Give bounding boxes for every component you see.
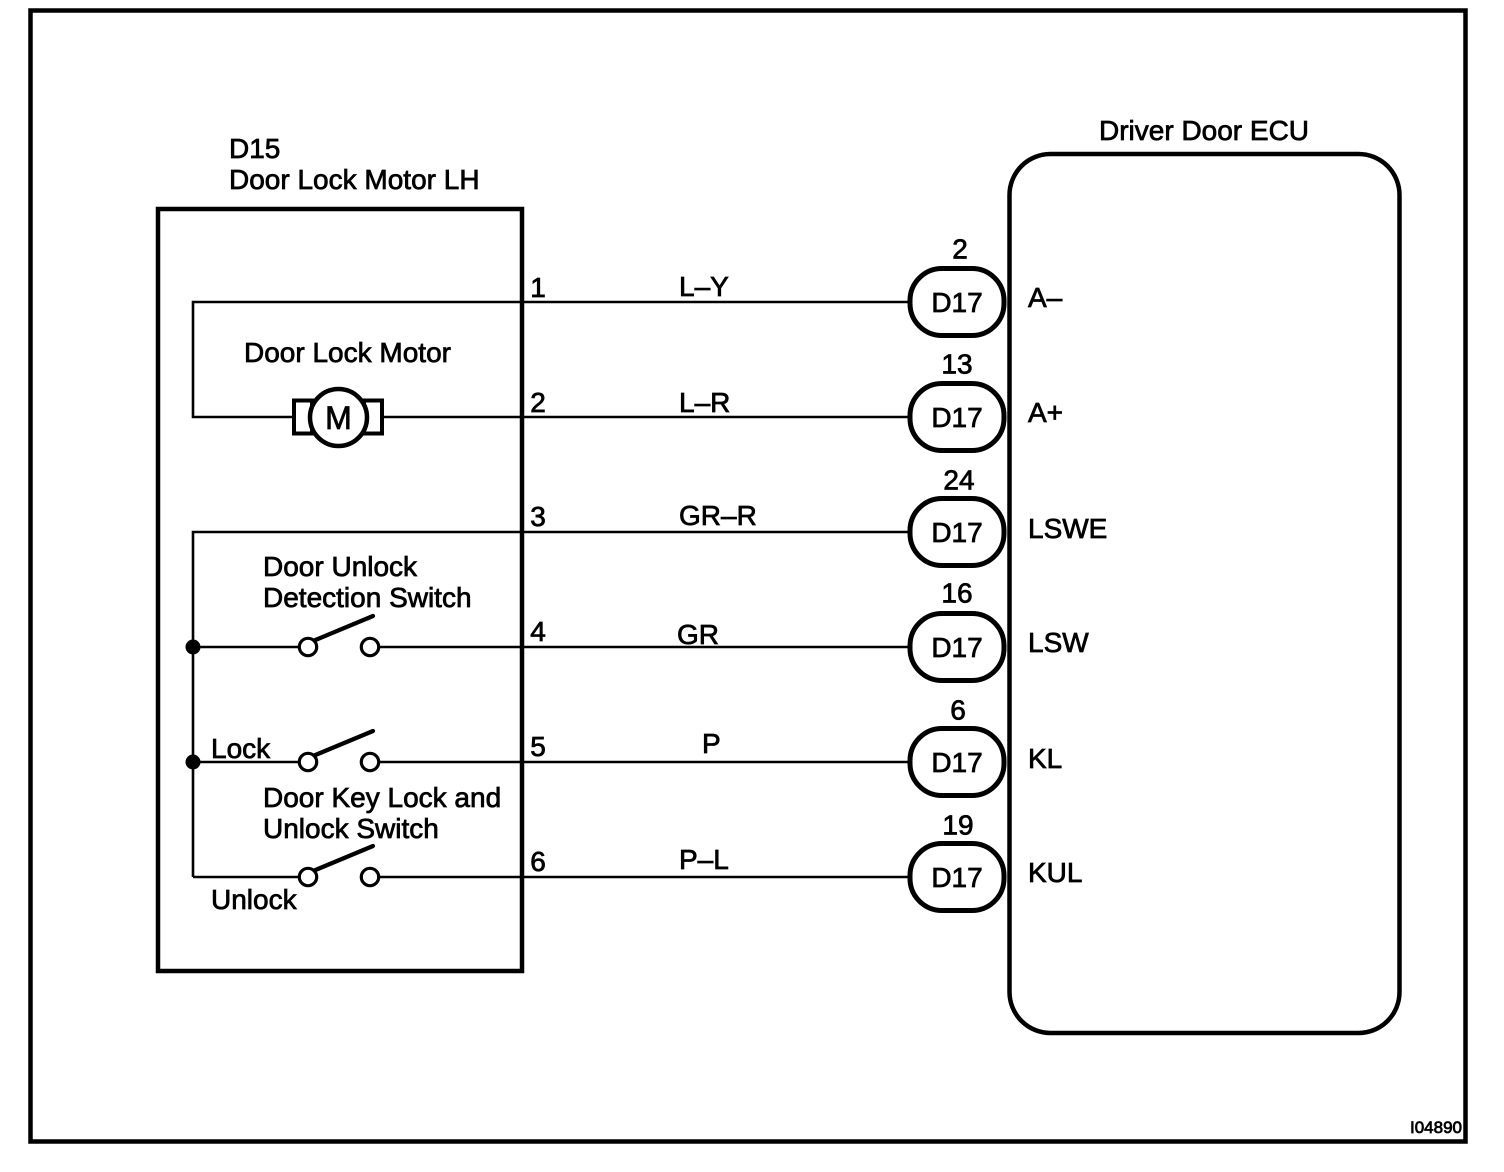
svg-text:P–L: P–L [679,844,729,875]
svg-text:16: 16 [941,578,972,609]
svg-text:2: 2 [530,387,546,418]
svg-text:Door Lock Motor LH: Door Lock Motor LH [229,164,480,195]
svg-text:D17: D17 [931,632,982,663]
svg-text:Unlock: Unlock [211,884,298,915]
svg-text:Detection Switch: Detection Switch [263,582,472,613]
svg-text:6: 6 [950,695,966,726]
svg-text:4: 4 [530,616,546,647]
svg-text:Driver Door ECU: Driver Door ECU [1099,115,1309,146]
svg-text:LSWE: LSWE [1028,513,1107,544]
svg-text:19: 19 [942,810,973,841]
svg-text:Lock: Lock [211,733,271,764]
svg-text:3: 3 [530,501,546,532]
svg-text:Unlock Switch: Unlock Switch [263,813,439,844]
svg-text:P: P [702,728,721,759]
svg-text:I04890: I04890 [1410,1118,1462,1137]
svg-text:KL: KL [1028,743,1062,774]
svg-text:KUL: KUL [1028,857,1082,888]
svg-text:5: 5 [530,731,546,762]
svg-text:D17: D17 [931,517,982,548]
svg-text:D15: D15 [229,133,280,164]
svg-text:A+: A+ [1028,397,1063,428]
svg-text:M: M [325,400,352,436]
svg-text:L–Y: L–Y [679,271,729,302]
svg-text:Door Lock Motor: Door Lock Motor [244,337,451,368]
svg-text:1: 1 [530,272,546,303]
svg-text:A–: A– [1028,282,1063,313]
svg-text:6: 6 [530,846,546,877]
svg-text:D17: D17 [931,402,982,433]
svg-text:D17: D17 [931,747,982,778]
svg-text:GR–R: GR–R [679,500,757,531]
svg-text:D17: D17 [931,287,982,318]
svg-text:Door Unlock: Door Unlock [263,551,418,582]
svg-text:Door Key Lock and: Door Key Lock and [263,782,501,813]
svg-text:GR: GR [677,619,719,650]
svg-text:2: 2 [952,234,968,265]
svg-text:L–R: L–R [679,387,730,418]
svg-text:LSW: LSW [1028,627,1089,658]
svg-text:24: 24 [943,465,974,496]
svg-text:13: 13 [941,349,972,380]
svg-text:D17: D17 [931,862,982,893]
